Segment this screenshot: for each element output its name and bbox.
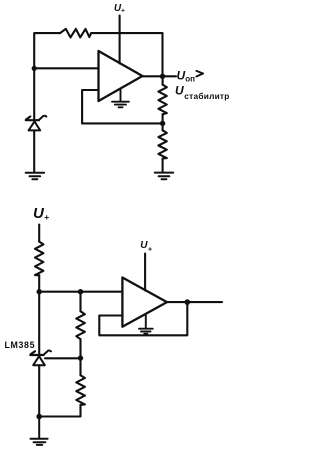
- wire op-amp U1 output: [142, 75, 176, 77]
- resistor R3 lower divider: [158, 123, 166, 171]
- svg-text:оп: оп: [185, 74, 195, 83]
- wire zener anode to ground: [33, 130, 35, 171]
- ground op-amp U2: [139, 315, 153, 334]
- node A reference node: [37, 289, 42, 294]
- wire LM385 anode to node B: [38, 365, 40, 416]
- resistor R1: [60, 29, 91, 38]
- node divider top circuit: [160, 121, 165, 126]
- wire op-amp U2 output: [167, 301, 222, 303]
- wire node D to LM385 cathode: [45, 357, 81, 359]
- node B bottom: [36, 414, 42, 420]
- label LM385: [5, 340, 36, 350]
- node output bottom circuit: [185, 299, 191, 305]
- wire inverting input U1: [82, 90, 98, 123]
- node D divider tap: [78, 355, 83, 360]
- zener diode VD1: [26, 116, 47, 131]
- ground zener VD1: [26, 173, 44, 180]
- label U+ supply op-amp U2: [140, 240, 152, 254]
- svg-text:U: U: [33, 205, 45, 222]
- svg-text:+: +: [121, 8, 125, 15]
- resistor R6 divider lower: [76, 358, 85, 416]
- svg-text:+: +: [148, 246, 152, 253]
- wire non-inverting input U1: [34, 67, 98, 69]
- node output top circuit: [160, 74, 165, 79]
- wire U+ lead bottom circuit: [38, 225, 40, 242]
- wire bottom return to node B: [39, 415, 80, 418]
- wire junction to zener cathode: [33, 68, 35, 119]
- wire node A to op-amp U2 non-inverting input: [39, 291, 122, 293]
- label Ustabilitr: [175, 84, 230, 102]
- label U+ supply top circuit: [114, 3, 125, 15]
- ground bottom circuit: [31, 417, 48, 445]
- ground op-amp U1: [112, 89, 129, 108]
- resistor R4 bias: [35, 242, 43, 276]
- wire inverting input U2 feedback: [99, 302, 187, 335]
- ground divider top circuit: [155, 173, 173, 180]
- op-amp U1: [99, 51, 143, 101]
- label Uop: [177, 68, 196, 83]
- label U+ supply bottom circuit: [33, 205, 49, 222]
- wire node A to LM385 cathode: [38, 292, 40, 354]
- svg-text:стабилитр: стабилитр: [184, 91, 229, 101]
- wire feedback bottom to divider node: [82, 122, 163, 124]
- reference diode LM385: [30, 351, 51, 366]
- wire R4 to node A: [38, 275, 40, 291]
- svg-text:U: U: [175, 84, 184, 98]
- wire feedback top right segment to output: [91, 33, 162, 76]
- node C divider top: [78, 289, 83, 294]
- wire feedback top left segment: [34, 33, 60, 68]
- svg-text:+: +: [44, 212, 49, 222]
- resistor R2 upper divider: [158, 76, 166, 123]
- wire U+ power lead to op-amp U1: [119, 16, 121, 64]
- wire U+ power lead to op-amp U2: [144, 254, 146, 291]
- svg-text:LM385: LM385: [5, 340, 36, 350]
- resistor R5 divider upper: [76, 292, 85, 358]
- svg-text:U: U: [177, 68, 186, 82]
- node junction left (zener / non-inverting input): [32, 66, 37, 71]
- op-amp U2: [122, 278, 167, 327]
